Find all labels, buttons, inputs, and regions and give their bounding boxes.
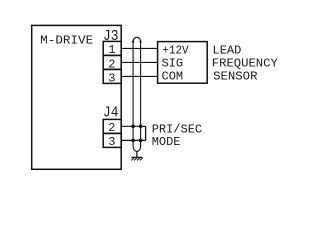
junction dot shield-right / J4-2 — [139, 125, 143, 129]
svg-text:COM: COM — [162, 69, 184, 83]
shield arc end dot right — [140, 41, 142, 43]
shield right conductor — [140, 42, 142, 146]
wire J4-2 to jumper — [121, 125, 145, 127]
svg-text:FREQUENCY: FREQUENCY — [212, 56, 278, 70]
svg-text:MODE: MODE — [152, 135, 181, 149]
ground hatch 4 — [140, 158, 143, 161]
connector J4 pin 3 box — [103, 133, 121, 147]
svg-text:3: 3 — [108, 72, 115, 86]
cable shield loop top arc — [133, 37, 141, 41]
connector J3 pin 3 box — [103, 69, 121, 83]
svg-text:+12V: +12V — [162, 43, 189, 57]
svg-text:LEAD: LEAD — [213, 43, 242, 57]
wire J3-1 to sensor +12V — [121, 47, 157, 49]
junction dot shield-left / J4-2 — [131, 125, 135, 129]
junction dot shield-right / J4-3 — [139, 139, 143, 143]
ground bar — [131, 156, 142, 158]
wire J3-2 to sensor SIG — [121, 61, 157, 63]
svg-text:3: 3 — [108, 135, 115, 149]
ground hatch 1 — [131, 158, 134, 161]
ground hatch 3 — [137, 158, 140, 161]
svg-text:SIG: SIG — [162, 56, 184, 70]
wire J3-3 to sensor COM — [121, 75, 157, 77]
shield drain stem — [136, 151, 138, 157]
ground hatch 2 — [134, 158, 137, 161]
shield arc end dot left — [132, 41, 134, 43]
connector J3 pin 1 box — [103, 41, 121, 55]
connector J3 pin 2 box — [103, 55, 121, 69]
jumper bar — [145, 126, 147, 140]
connector J4 pin 2 box — [103, 119, 121, 133]
wire J4-3 to jumper — [121, 139, 145, 141]
junction dot shield-left / J4-3 — [131, 139, 135, 143]
sensor terminal box — [158, 42, 208, 84]
svg-text:SENSOR: SENSOR — [213, 69, 257, 83]
shield bottom U-bend — [133, 145, 141, 151]
svg-text:M-DRIVE: M-DRIVE — [40, 33, 93, 47]
shield left conductor — [132, 42, 134, 146]
M-DRIVE controller box — [32, 25, 122, 169]
